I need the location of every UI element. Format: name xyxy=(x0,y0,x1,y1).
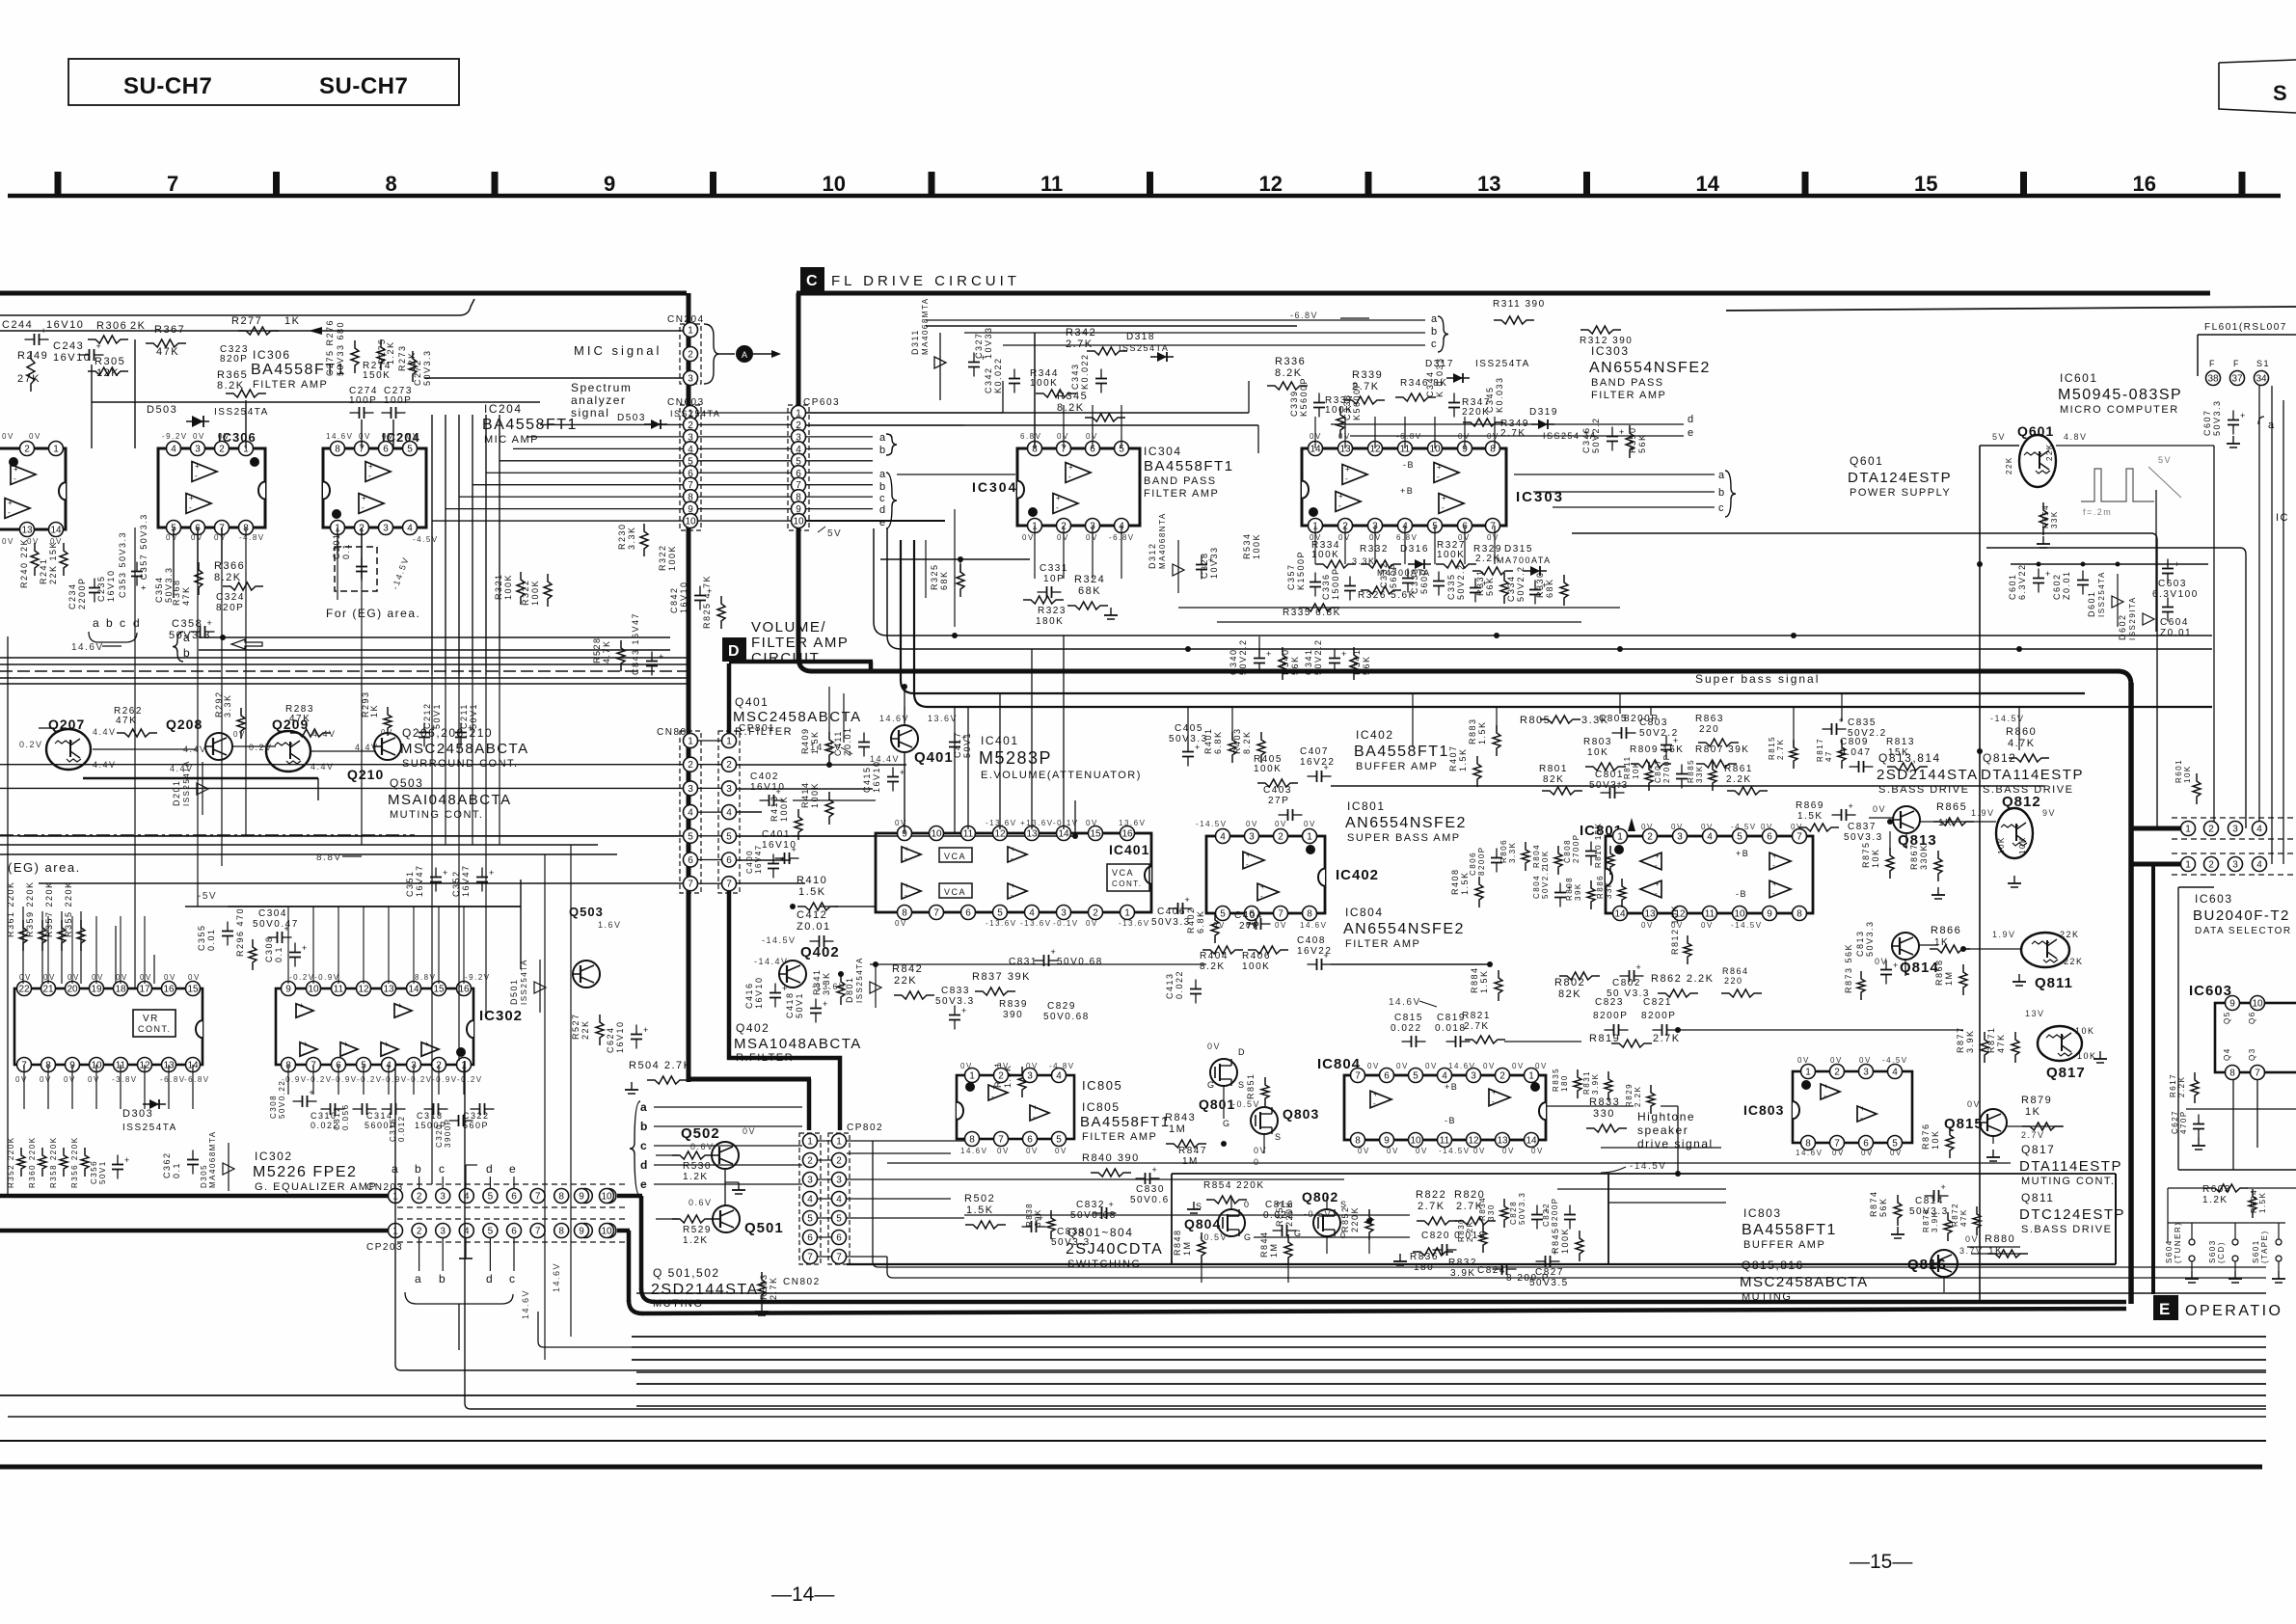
svg-text:0V: 0V xyxy=(188,973,201,982)
svg-text:1: 1 xyxy=(807,1137,813,1148)
wire bus corner c xyxy=(901,540,2085,693)
svg-text:R852: R852 xyxy=(1340,1205,1350,1232)
resistor R603 xyxy=(2202,1184,2267,1218)
svg-text:c: c xyxy=(640,1139,648,1152)
svg-text:7: 7 xyxy=(726,880,732,890)
svg-text:R812 10K: R812 10K xyxy=(1670,905,1680,955)
svg-text:+: + xyxy=(1246,851,1251,859)
svg-text:330K: 330K xyxy=(1919,844,1929,870)
svg-text:330: 330 xyxy=(1487,1204,1496,1221)
transistor Q503 xyxy=(569,905,622,988)
svg-text:CP203: CP203 xyxy=(366,1242,403,1253)
svg-text:-: - xyxy=(384,1049,387,1058)
svg-text:+: + xyxy=(1655,852,1660,860)
svg-text:R324: R324 xyxy=(1074,574,1105,585)
svg-text:C604: C604 xyxy=(2160,617,2189,628)
svg-text:IC801: IC801 xyxy=(1347,799,1386,813)
svg-text:Q811: Q811 xyxy=(2021,1191,2054,1204)
capacitor C353 xyxy=(118,531,143,598)
svg-text:10K: 10K xyxy=(1871,848,1880,868)
svg-text:R817: R817 xyxy=(1816,738,1824,762)
capacitor C813 xyxy=(1855,920,1898,984)
svg-text:MIC signal: MIC signal xyxy=(574,343,662,358)
svg-text:560P: 560P xyxy=(463,1121,489,1130)
svg-text:0V: 0V xyxy=(1275,820,1287,828)
svg-text:Spectrum: Spectrum xyxy=(571,381,632,394)
svg-text:+: + xyxy=(823,999,827,1009)
svg-text:2.7K: 2.7K xyxy=(1776,739,1785,760)
svg-text:14: 14 xyxy=(1696,172,1720,196)
svg-text:0V: 0V xyxy=(1246,820,1258,828)
svg-text:Z0.01: Z0.01 xyxy=(797,921,831,933)
svg-text:C354: C354 xyxy=(154,576,164,603)
capacitor C413 xyxy=(1165,970,1202,1004)
svg-text:100K: 100K xyxy=(1252,533,1261,559)
svg-text:6: 6 xyxy=(1384,1071,1390,1082)
svg-text:+: + xyxy=(1338,492,1343,501)
svg-text:1.2K: 1.2K xyxy=(683,1172,709,1182)
svg-text:POWER SUPPLY: POWER SUPPLY xyxy=(1850,487,1951,499)
label abcde q502 xyxy=(630,1100,802,1196)
capacitor C304 xyxy=(253,908,299,943)
svg-text:C324: C324 xyxy=(216,592,245,603)
svg-text:a: a xyxy=(183,631,191,644)
svg-text:R861: R861 xyxy=(1724,764,1753,774)
svg-text:+: + xyxy=(1437,463,1442,472)
svg-text:0.1: 0.1 xyxy=(172,1162,181,1178)
svg-text:100K: 100K xyxy=(1437,550,1465,560)
svg-text:16: 16 xyxy=(458,985,470,995)
transistor Q208 xyxy=(166,717,232,760)
svg-text:19: 19 xyxy=(91,985,102,995)
svg-text:C339: C339 xyxy=(1289,390,1299,417)
svg-text:2.7K: 2.7K xyxy=(1464,1021,1490,1032)
transistor Q803 xyxy=(1223,1099,1319,1142)
svg-text:0V: 0V xyxy=(1473,1147,1486,1155)
svg-text:+: + xyxy=(1823,1082,1828,1091)
svg-text:+: + xyxy=(1324,763,1329,772)
svg-text:1M: 1M xyxy=(1182,1156,1199,1167)
svg-text:16V10: 16V10 xyxy=(615,1020,625,1053)
svg-text:3.9K: 3.9K xyxy=(1591,1073,1600,1095)
svg-text:R331: R331 xyxy=(1475,569,1485,596)
svg-text:Q402: Q402 xyxy=(736,1021,770,1035)
resistor R803 xyxy=(1583,737,1626,771)
svg-text:100K: 100K xyxy=(810,782,820,808)
svg-text:0: 0 xyxy=(1244,1200,1251,1209)
wire lower horizontals xyxy=(887,1148,2020,1247)
svg-text:C234: C234 xyxy=(68,582,77,609)
svg-text:6.8K: 6.8K xyxy=(1196,909,1205,934)
svg-text:50V3.3: 50V3.3 xyxy=(2212,399,2222,436)
svg-text:8200P: 8200P xyxy=(1477,846,1486,876)
svg-text:ISS254TA: ISS254TA xyxy=(122,1123,177,1133)
svg-text:S: S xyxy=(1238,1080,1246,1090)
label voltages ic302 top xyxy=(289,973,491,982)
svg-text:15: 15 xyxy=(187,985,199,995)
svg-text:16V10: 16V10 xyxy=(46,319,84,331)
svg-text:13: 13 xyxy=(21,526,33,536)
resistor R854 xyxy=(1187,1180,1265,1213)
svg-text:0V: 0V xyxy=(233,730,246,739)
resistor R880 xyxy=(1985,1233,2028,1258)
svg-text:C831: C831 xyxy=(1009,957,1038,967)
wire c408 net xyxy=(870,963,1490,965)
svg-text:+: + xyxy=(443,868,447,878)
svg-text:0V: 0V xyxy=(1425,1062,1438,1070)
svg-text:R410: R410 xyxy=(797,875,827,886)
svg-text:7: 7 xyxy=(1355,1071,1361,1082)
svg-text:50V3.3: 50V3.3 xyxy=(1844,832,1883,843)
svg-text:C829: C829 xyxy=(1047,1001,1076,1012)
diode D801 xyxy=(845,957,881,1008)
capacitor C828 xyxy=(1509,1192,1549,1230)
op-amp IC401 xyxy=(876,819,1151,928)
switch S601 xyxy=(2252,1230,2285,1283)
svg-text:C343: C343 xyxy=(1070,363,1080,390)
svg-text:BA4558FT1: BA4558FT1 xyxy=(1742,1222,1837,1238)
svg-text:2.7K: 2.7K xyxy=(1066,338,1094,350)
svg-text:3: 3 xyxy=(1249,832,1255,843)
svg-text:S601: S601 xyxy=(2252,1239,2260,1263)
resistor R861 xyxy=(1724,764,1768,795)
capacitor row C308-C322 xyxy=(269,1080,495,1148)
svg-text:C835: C835 xyxy=(1848,717,1877,728)
label a fl xyxy=(2258,417,2276,431)
resistor R334 xyxy=(1311,540,1356,568)
svg-text:0V: 0V xyxy=(1026,1147,1039,1155)
svg-text:C601: C601 xyxy=(2008,573,2017,600)
svg-text:K1500P: K1500P xyxy=(1296,551,1306,590)
label de letters xyxy=(1688,414,1695,439)
label a b c d xyxy=(89,616,141,642)
svg-text:0V: 0V xyxy=(64,1075,76,1084)
label IC804 group xyxy=(1343,906,1465,950)
capacitor C358 xyxy=(169,618,215,641)
svg-text:0V: 0V xyxy=(214,533,227,542)
svg-text:9V: 9V xyxy=(2042,808,2056,818)
svg-text:MA700ATA: MA700ATA xyxy=(1497,555,1552,565)
svg-text:BA4558FT1: BA4558FT1 xyxy=(1354,744,1449,760)
label IC601 group xyxy=(2058,371,2182,416)
svg-text:R848: R848 xyxy=(1173,1229,1182,1256)
svg-text:ISS254TA: ISS254TA xyxy=(214,407,269,418)
svg-text:MSC2458ABCTA: MSC2458ABCTA xyxy=(400,741,529,757)
svg-text:IC805: IC805 xyxy=(1082,1100,1121,1114)
wire lower rails xyxy=(847,1153,1726,1203)
label abc top xyxy=(1431,313,1448,352)
svg-text:-: - xyxy=(1442,503,1445,512)
svg-text:+: + xyxy=(1152,1165,1157,1175)
svg-text:0V: 0V xyxy=(1254,1146,1267,1155)
label -14.5V cp801 xyxy=(805,743,852,754)
svg-text:4: 4 xyxy=(407,524,413,534)
svg-text:D303: D303 xyxy=(122,1108,153,1120)
wire cn203 ext xyxy=(617,1196,655,1302)
svg-text:R805: R805 xyxy=(1520,715,1551,726)
svg-text:0V: 0V xyxy=(2,537,14,546)
label voltages vr top xyxy=(19,973,201,982)
svg-text:39K: 39K xyxy=(1034,1208,1042,1227)
svg-text:22K 15K: 22K 15K xyxy=(48,541,58,584)
svg-text:R875: R875 xyxy=(1861,841,1871,868)
waveform sketch xyxy=(2081,455,2181,517)
svg-text:16V47: 16V47 xyxy=(461,864,471,897)
svg-text:Q501: Q501 xyxy=(744,1220,784,1236)
svg-text:Q815,816: Q815,816 xyxy=(1742,1259,1804,1272)
resistor R331 xyxy=(1475,569,1508,604)
svg-text:MA4068NTA: MA4068NTA xyxy=(1158,512,1167,569)
svg-text:22K: 22K xyxy=(2060,930,2080,939)
diode D503 xyxy=(147,404,269,427)
svg-text:+13.6V: +13.6V xyxy=(1020,819,1054,827)
svg-text:SUPER BASS AMP: SUPER BASS AMP xyxy=(1347,832,1461,844)
svg-text:-B: -B xyxy=(1445,1116,1456,1125)
wire mesh block xyxy=(737,687,2064,1254)
wire fl top lines xyxy=(926,320,1425,345)
svg-text:C: C xyxy=(806,273,818,289)
svg-text:C418: C418 xyxy=(785,991,795,1018)
svg-text:K 0.033: K 0.033 xyxy=(1435,357,1445,397)
label Q811b group xyxy=(2019,1191,2125,1235)
svg-text:14.6V: 14.6V xyxy=(1300,921,1327,930)
svg-text:+: + xyxy=(362,494,366,502)
svg-text:C335: C335 xyxy=(1446,573,1456,600)
svg-text:7: 7 xyxy=(2255,1069,2260,1079)
resistor R409 xyxy=(800,727,833,763)
svg-text:100K: 100K xyxy=(1560,1228,1570,1254)
svg-text:+: + xyxy=(1033,1103,1038,1112)
svg-text:C341: C341 xyxy=(1304,648,1313,675)
svg-text:47K: 47K xyxy=(181,585,191,606)
capacitor C234 xyxy=(68,577,100,609)
svg-text:D503: D503 xyxy=(147,404,177,416)
svg-text:1: 1 xyxy=(1805,1068,1811,1078)
svg-text:7: 7 xyxy=(688,880,693,890)
svg-text:5V: 5V xyxy=(827,528,842,539)
svg-text:G: G xyxy=(1244,1232,1253,1242)
label 14.6V mid xyxy=(1389,997,1437,1008)
svg-text:2.7K: 2.7K xyxy=(1418,1201,1445,1212)
svg-text:50V1: 50V1 xyxy=(795,992,804,1018)
label 8.8V xyxy=(316,853,362,863)
svg-text:R841: R841 xyxy=(812,968,822,995)
svg-text:47K: 47K xyxy=(1959,1208,1968,1227)
svg-text:FILTER AMP: FILTER AMP xyxy=(1082,1131,1157,1143)
diode D303 xyxy=(122,1099,177,1133)
wire bus corner d xyxy=(914,540,2212,707)
svg-text:D801: D801 xyxy=(845,976,854,1003)
svg-text:R835: R835 xyxy=(1552,1068,1560,1092)
op-amp IC603 box xyxy=(2215,996,2296,1080)
svg-text:11: 11 xyxy=(1440,1136,1450,1147)
svg-text:+: + xyxy=(659,652,663,662)
wire cn802-cp802 xyxy=(818,1141,831,1257)
svg-text:10: 10 xyxy=(2252,999,2263,1010)
svg-text:IC306: IC306 xyxy=(253,348,291,362)
svg-text:-: - xyxy=(1772,861,1775,870)
svg-text:5: 5 xyxy=(1737,832,1742,843)
svg-text:7: 7 xyxy=(836,1253,842,1263)
svg-text:0V: 0V xyxy=(1535,1062,1548,1070)
svg-text:C815: C815 xyxy=(1394,1013,1423,1023)
svg-text:R876: R876 xyxy=(1921,1123,1931,1150)
capacitor C354 xyxy=(154,566,174,603)
svg-text:8: 8 xyxy=(558,1192,564,1203)
svg-text:R296 470: R296 470 xyxy=(235,907,245,957)
svg-text:b: b xyxy=(879,481,887,493)
svg-text:R886: R886 xyxy=(1596,875,1605,899)
resistor R806 xyxy=(1499,839,1529,871)
wire cn801-cp801 xyxy=(698,741,721,883)
resistor R853 xyxy=(1275,1200,1294,1227)
svg-text:+: + xyxy=(1772,852,1777,860)
svg-text:ISS254TA: ISS254TA xyxy=(670,409,720,419)
svg-text:R866: R866 xyxy=(1931,925,1961,936)
svg-text:8: 8 xyxy=(1355,1136,1361,1147)
svg-text:16V47: 16V47 xyxy=(754,844,763,874)
svg-text:D503: D503 xyxy=(617,413,646,423)
svg-text:IC803: IC803 xyxy=(1743,1206,1782,1220)
wire psu rail xyxy=(2011,562,2208,567)
svg-text:7: 7 xyxy=(998,1135,1004,1146)
svg-text:470P: 470P xyxy=(2179,1110,2188,1134)
svg-text:C820 0.018: C820 0.018 xyxy=(1421,1231,1486,1241)
svg-text:C821: C821 xyxy=(1643,997,1672,1008)
svg-text:2: 2 xyxy=(1093,908,1098,919)
svg-text:DTA114ESTP: DTA114ESTP xyxy=(2019,1158,2122,1175)
svg-text:-6.8V: -6.8V xyxy=(1290,311,1318,320)
svg-text:-0.5V: -0.5V xyxy=(1232,1099,1260,1109)
label IC306 group xyxy=(251,348,346,391)
transistor Q401 xyxy=(870,714,958,766)
svg-text:0V: 0V xyxy=(1086,819,1098,827)
svg-text:16V10: 16V10 xyxy=(872,760,881,793)
svg-text:6: 6 xyxy=(1027,1135,1033,1146)
svg-text:56K: 56K xyxy=(1878,1197,1888,1217)
svg-text:C803: C803 xyxy=(1639,717,1668,728)
svg-text:1: 1 xyxy=(836,1137,842,1148)
svg-text:R874: R874 xyxy=(1869,1190,1878,1217)
page number -14- xyxy=(771,1583,834,1606)
svg-text:Q601: Q601 xyxy=(1850,454,1883,468)
svg-text:Q801: Q801 xyxy=(1199,1096,1235,1112)
label -5V xyxy=(185,891,521,907)
svg-text:0V: 0V xyxy=(1512,1062,1525,1070)
svg-text:68K: 68K xyxy=(1078,585,1101,597)
svg-text:M50945-083SP: M50945-083SP xyxy=(2058,387,2182,403)
capacitor C331 xyxy=(1038,563,1068,598)
svg-text:6: 6 xyxy=(807,1233,813,1244)
svg-text:1: 1 xyxy=(726,737,732,747)
svg-text:2.7K: 2.7K xyxy=(1500,428,1526,439)
svg-text:C402: C402 xyxy=(750,771,779,782)
svg-text:13: 13 xyxy=(383,985,394,995)
svg-text:10: 10 xyxy=(601,1227,612,1237)
svg-text:C603: C603 xyxy=(2158,579,2187,589)
capacitor C235 xyxy=(96,569,116,602)
svg-text:82K: 82K xyxy=(1558,988,1581,1000)
svg-text:10K: 10K xyxy=(1587,747,1608,758)
wire fan verticals ext xyxy=(432,675,500,1184)
svg-text:1M: 1M xyxy=(1169,1123,1186,1135)
svg-text:9: 9 xyxy=(1767,909,1772,920)
resistor R240 xyxy=(19,538,39,588)
svg-text:0V: 0V xyxy=(1487,533,1499,542)
svg-text:+: + xyxy=(991,1083,996,1092)
capacitor C833 xyxy=(935,986,975,1030)
svg-text:3.3K: 3.3K xyxy=(627,526,636,550)
svg-text:5V: 5V xyxy=(1992,432,2006,442)
svg-text:K0.022: K0.022 xyxy=(993,357,1003,393)
svg-text:22K: 22K xyxy=(581,1019,590,1040)
svg-text:R311 390: R311 390 xyxy=(1493,299,1546,310)
svg-text:+B: +B xyxy=(1445,1082,1458,1092)
svg-text:-4.8V: -4.8V xyxy=(1049,1062,1075,1070)
op-amp IC304 xyxy=(972,432,1140,542)
section label E OPERATION xyxy=(2153,1295,2283,1320)
wire buses left xyxy=(0,658,687,684)
capacitor C806 xyxy=(1469,846,1502,876)
svg-text:7: 7 xyxy=(167,172,178,196)
svg-text:M5283P: M5283P xyxy=(979,748,1052,768)
capacitor C824 xyxy=(1477,1263,1550,1284)
connector right row1 xyxy=(2131,818,2296,839)
wire right drops xyxy=(2156,386,2283,864)
svg-text:D: D xyxy=(728,643,740,660)
svg-text:MSA1048ABCTA: MSA1048ABCTA xyxy=(734,1036,862,1052)
wire left block vertical xyxy=(687,293,691,1082)
svg-text:R366: R366 xyxy=(214,560,245,572)
svg-text:d: d xyxy=(879,504,887,516)
label Q815816 group xyxy=(1740,1259,1869,1303)
resistor R357 xyxy=(44,880,66,951)
svg-text:0V: 0V xyxy=(2,432,14,441)
label Q812 group xyxy=(1981,751,2084,796)
svg-text:+: + xyxy=(1051,947,1056,957)
svg-text:820P: 820P xyxy=(216,603,244,613)
svg-text:17: 17 xyxy=(139,985,150,995)
svg-text:R869: R869 xyxy=(1796,800,1824,811)
wire cp801 right xyxy=(737,765,1075,883)
svg-text:8200P: 8200P xyxy=(1551,1197,1559,1227)
resistor R819 xyxy=(1589,1033,1681,1047)
svg-text:MUTING CONT.: MUTING CONT. xyxy=(2021,1176,2115,1187)
resistor R843 xyxy=(1165,1112,1206,1148)
svg-text:1.9V: 1.9V xyxy=(1992,930,2016,939)
label For EG area xyxy=(326,532,420,620)
svg-text:VCA: VCA xyxy=(944,852,966,861)
svg-text:14.6V: 14.6V xyxy=(1448,1062,1475,1070)
capacitor C603 xyxy=(2152,559,2199,601)
svg-text:14: 14 xyxy=(1526,1136,1537,1147)
svg-text:+: + xyxy=(1260,882,1265,891)
capacitor C340 xyxy=(1229,638,1271,675)
svg-text:0V: 0V xyxy=(43,973,56,982)
svg-text:R361 220K: R361 220K xyxy=(6,880,15,937)
svg-text:5: 5 xyxy=(726,831,732,842)
svg-text:Q804: Q804 xyxy=(1184,1216,1221,1232)
label Q401 group xyxy=(733,695,862,738)
label IC804n xyxy=(1317,1056,1361,1072)
resistor R813 xyxy=(1886,737,1928,771)
svg-text:C607: C607 xyxy=(2202,409,2212,436)
svg-text:+: + xyxy=(643,1025,648,1035)
svg-text:R880: R880 xyxy=(1985,1233,2015,1245)
svg-text:R871: R871 xyxy=(1986,1026,1996,1053)
svg-text:7: 7 xyxy=(1834,1139,1840,1150)
svg-text:C344: C344 xyxy=(1425,370,1435,397)
